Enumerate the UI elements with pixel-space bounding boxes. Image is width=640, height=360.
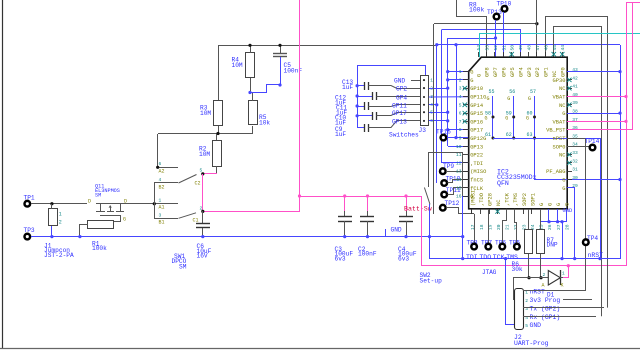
- svg-text:VBAT: VBAT: [553, 119, 567, 125]
- svg-text:47: 47: [535, 45, 541, 51]
- svg-text:J3: J3: [419, 127, 427, 134]
- svg-text:G: G: [547, 203, 553, 206]
- svg-text:,TMS: ,TMS: [513, 193, 519, 206]
- wire TP1 to Q11 gate: [31, 203, 87, 205]
- capacitor C13: [357, 85, 364, 87]
- svg-text:TDI: TDI: [466, 254, 478, 261]
- wire Tx GP2 top loop: [546, 17, 608, 308]
- svg-text:29: 29: [572, 183, 578, 189]
- svg-text:fnCS: fnCS: [470, 178, 483, 184]
- svg-text:GP0: GP0: [561, 67, 567, 77]
- svg-text:GP2: GP2: [535, 67, 541, 77]
- svg-text:10M: 10M: [199, 151, 210, 158]
- svg-text:UART-Prog: UART-Prog: [514, 340, 549, 347]
- capacitor C3: [344, 196, 346, 211]
- wire chip G pin1: [448, 71, 468, 73]
- wire VBAT pin40: [567, 96, 626, 98]
- switch SW2 Set-up: [428, 152, 430, 187]
- svg-text:4: 4: [159, 177, 162, 183]
- svg-text:57: 57: [530, 89, 536, 95]
- svg-text:GP3: GP3: [527, 67, 533, 77]
- svg-text:,TCK: ,TCK: [505, 192, 511, 206]
- svg-text:G: G: [123, 217, 126, 223]
- svg-text:28: 28: [564, 224, 570, 230]
- wire GND rail lower: [430, 258, 620, 260]
- svg-text:1: 1: [159, 198, 162, 204]
- svg-text:NC: NC: [496, 200, 502, 206]
- svg-text:G: G: [556, 203, 562, 206]
- svg-text:1: 1: [562, 271, 565, 277]
- svg-text:3: 3: [430, 95, 433, 100]
- wire bottom G pins bus: [540, 221, 566, 223]
- wire GND vertical right: [620, 45, 622, 259]
- svg-text:(MOSI: (MOSI: [470, 190, 476, 206]
- svg-text:3: 3: [459, 86, 462, 92]
- ground GND net stub: [385, 229, 387, 237]
- test point TP6: [503, 209, 507, 243]
- wire GP2 net: [429, 88, 448, 90]
- svg-text:Batt-Sw: Batt-Sw: [404, 205, 432, 212]
- resistor R4: [246, 53, 255, 78]
- wire VB_PST pin36: [567, 129, 633, 131]
- wire G pin38 to GND: [567, 113, 620, 115]
- test point TP8: [474, 214, 476, 243]
- svg-text:JST-2-PA: JST-2-PA: [44, 252, 74, 259]
- svg-text:C2: C2: [195, 180, 201, 186]
- svg-text:GP11G: GP11G: [470, 95, 486, 101]
- capacitor C4: [406, 196, 408, 211]
- svg-text:16: 16: [456, 194, 462, 200]
- svg-text:6v3: 6v3: [398, 255, 409, 262]
- svg-text:1: 1: [430, 78, 433, 83]
- chip right pins: [567, 187, 572, 189]
- svg-text:62: 62: [506, 132, 512, 138]
- svg-text:VB_PST: VB_PST: [546, 128, 566, 134]
- svg-text:TP3: TP3: [24, 227, 35, 234]
- wire GP17 net: [429, 112, 448, 114]
- svg-text:21: 21: [504, 224, 510, 230]
- svg-text:1uF: 1uF: [335, 131, 346, 138]
- svg-text:55: 55: [489, 89, 495, 95]
- svg-text:2: 2: [59, 220, 62, 226]
- svg-text:4: 4: [430, 103, 433, 108]
- svg-text:Tx (GP2): Tx (GP2): [530, 305, 561, 312]
- resistor R2: [213, 141, 222, 167]
- wire GND to J2 pin5: [506, 259, 515, 325]
- svg-text:1: 1: [59, 212, 62, 218]
- svg-text:Set-up: Set-up: [420, 277, 443, 284]
- svg-text:13: 13: [456, 169, 462, 175]
- test point TP1: [25, 201, 31, 207]
- svg-text:GP4: GP4: [396, 94, 407, 101]
- svg-text:GP17: GP17: [392, 110, 407, 117]
- svg-text:GP1: GP1: [544, 67, 550, 77]
- svg-text:46: 46: [543, 45, 549, 51]
- svg-text:30k: 30k: [512, 266, 523, 273]
- svg-text:B2: B2: [159, 185, 165, 191]
- svg-text:6: 6: [459, 111, 462, 117]
- svg-text:NC: NC: [559, 86, 565, 92]
- wire cyan net: [480, 34, 640, 58]
- svg-text:JTAG: JTAG: [482, 269, 497, 276]
- svg-text:17: 17: [470, 224, 476, 230]
- svg-text:G: G: [470, 78, 473, 84]
- svg-text:A1: A1: [159, 205, 165, 211]
- svg-text:G: G: [565, 203, 571, 206]
- svg-text:nRST: nRST: [588, 252, 604, 259]
- svg-text:SOP0: SOP0: [553, 144, 566, 150]
- svg-text:,TDI: ,TDI: [470, 161, 483, 167]
- svg-text:GP15: GP15: [470, 111, 483, 117]
- svg-text:43: 43: [572, 67, 578, 73]
- wire VBAT vertical right: [626, 2, 628, 266]
- svg-text:27: 27: [556, 224, 562, 230]
- IC U-IC2 chip body: [469, 57, 568, 209]
- svg-text:Rx (GP1): Rx (GP1): [530, 314, 561, 321]
- svg-text:GP13: GP13: [470, 144, 483, 150]
- svg-text:VBAT: VBAT: [553, 95, 567, 101]
- svg-text:50: 50: [510, 45, 516, 51]
- wire blue bus left of chip: [447, 38, 449, 146]
- wire 3v3Prog to J2 pin2: [514, 278, 517, 300]
- svg-text:nRST: nRST: [530, 289, 546, 296]
- svg-text:1uF: 1uF: [342, 84, 353, 91]
- svg-text:2: 2: [459, 77, 462, 83]
- resistor R1: [88, 221, 114, 229]
- wire G pin29 to GND: [567, 188, 574, 259]
- svg-text:42: 42: [572, 75, 578, 81]
- svg-text:GP13: GP13: [392, 119, 407, 126]
- svg-text:63: 63: [527, 132, 533, 138]
- svg-text:TMS: TMS: [506, 254, 518, 261]
- svg-text:1: 1: [459, 69, 462, 75]
- wire GND rail: [31, 236, 463, 238]
- switch SW1 DPCO: [158, 167, 178, 169]
- svg-text:30: 30: [572, 175, 578, 181]
- svg-text:49: 49: [518, 45, 524, 51]
- test point TP3: [25, 234, 31, 240]
- svg-text:GND: GND: [394, 78, 405, 85]
- svg-text:TCK: TCK: [493, 254, 505, 261]
- svg-text:G: G: [485, 115, 488, 121]
- test point TP14: [567, 146, 590, 148]
- svg-text:G: G: [539, 203, 545, 206]
- svg-text:10: 10: [456, 144, 462, 150]
- wire Rx GP1 top loop: [554, 27, 602, 317]
- wire top pin47 to top edge: [536, 0, 538, 57]
- transistor Q11 dual MOSFET: [96, 203, 154, 205]
- svg-text:44: 44: [560, 45, 566, 51]
- svg-text:GP7: GP7: [493, 67, 499, 77]
- capacitor C9: [357, 127, 364, 129]
- capacitor C12: [357, 96, 372, 98]
- svg-text:5: 5: [459, 102, 462, 108]
- svg-text:QFN: QFN: [497, 180, 509, 187]
- svg-text:GP17: GP17: [470, 128, 483, 134]
- svg-text:48: 48: [527, 45, 533, 51]
- capacitor C10: [357, 115, 372, 117]
- svg-text:6v3: 6v3: [335, 255, 346, 262]
- svg-text:39: 39: [572, 100, 578, 106]
- wire VBAT top right: [626, 2, 640, 4]
- wire chip G pin16 to GND: [463, 196, 468, 198]
- wire blue horiz y29: [441, 30, 520, 58]
- svg-text:SM: SM: [95, 193, 101, 199]
- svg-text:PF_ABG: PF_ABG: [546, 169, 565, 175]
- svg-text:SM: SM: [179, 263, 187, 270]
- svg-text:G: G: [562, 111, 565, 117]
- svg-text:10k: 10k: [259, 120, 270, 127]
- svg-text:GP2: GP2: [396, 86, 407, 93]
- wire VBAT pin37: [567, 121, 626, 123]
- svg-text:GP5: GP5: [510, 67, 516, 77]
- svg-text:10M: 10M: [232, 62, 243, 69]
- svg-text:100k: 100k: [92, 245, 107, 252]
- capacitor C11: [357, 106, 364, 108]
- svg-text:6: 6: [430, 119, 433, 124]
- test point TP7: [488, 209, 490, 243]
- svg-text:2: 2: [525, 298, 528, 304]
- svg-text:26: 26: [547, 224, 553, 230]
- wire J2 pin1 nRST: [523, 290, 586, 292]
- svg-text:18: 18: [479, 224, 485, 230]
- svg-text:5: 5: [525, 323, 528, 329]
- resistor R3: [214, 101, 223, 126]
- svg-text:G: G: [470, 70, 473, 76]
- wire blue stub J3 side: [436, 45, 438, 183]
- svg-text:GP6: GP6: [502, 67, 508, 77]
- svg-text:GP4: GP4: [518, 67, 524, 77]
- svg-text:33: 33: [572, 150, 578, 156]
- svg-text:20: 20: [496, 224, 502, 230]
- svg-text:3: 3: [159, 212, 162, 218]
- connector J3 Switches: [421, 76, 429, 126]
- capacitor C5: [273, 53, 287, 55]
- svg-text:45: 45: [552, 45, 558, 51]
- svg-text:54: 54: [476, 45, 482, 51]
- svg-text:TP1: TP1: [24, 194, 35, 201]
- svg-text:NC: NC: [559, 103, 565, 109]
- wire pink 3v3 rail bottom: [421, 265, 626, 267]
- svg-text:G: G: [476, 74, 482, 77]
- svg-text:GP14: GP14: [470, 103, 483, 109]
- wire 3v3Prog right segment: [563, 299, 592, 301]
- wire V+ top rail: [218, 45, 437, 47]
- wire R2 R3 R5 node: [158, 133, 253, 135]
- wire pink Batt-Sw down to SW2 rail: [421, 196, 423, 266]
- svg-text:K: K: [561, 283, 564, 289]
- svg-text:SOP2: SOP2: [522, 193, 528, 206]
- svg-text:NC: NC: [552, 71, 558, 77]
- wire G pin43 to GND: [567, 71, 620, 73]
- svg-text:4: 4: [459, 94, 462, 100]
- svg-text:G: G: [526, 115, 529, 121]
- svg-text:DNP: DNP: [547, 242, 558, 249]
- wire nPST pin35 to TP4/J2: [567, 139, 585, 291]
- wire Batt-Sw pink net from SW1: [203, 173, 217, 175]
- svg-text:GP11: GP11: [392, 102, 407, 109]
- svg-text:6: 6: [159, 161, 162, 167]
- svg-text:4: 4: [525, 315, 528, 321]
- resistor R6: [528, 209, 530, 230]
- svg-text:GP28: GP28: [488, 193, 494, 206]
- svg-text:(MISO: (MISO: [470, 169, 486, 175]
- chip internal G pads: [492, 96, 494, 138]
- wire GP4 net: [429, 96, 468, 98]
- svg-text:11: 11: [456, 152, 462, 158]
- connector J1: [49, 209, 58, 226]
- test point TP5: [515, 209, 517, 243]
- svg-text:G: G: [487, 96, 490, 102]
- svg-text:31: 31: [572, 167, 578, 173]
- wire blue horiz y38: [448, 38, 496, 40]
- svg-text:A2: A2: [159, 169, 165, 175]
- wire blue bus B to TDI pin: [441, 30, 443, 163]
- svg-text:GP8: GP8: [485, 67, 491, 77]
- svg-text:,TDO: ,TDO: [479, 193, 485, 206]
- wire pink vertical from top edge: [299, 0, 301, 196]
- svg-text:SOP1: SOP1: [530, 193, 536, 206]
- svg-text:14: 14: [456, 177, 462, 183]
- wire GND bus of cap stack: [358, 66, 426, 86]
- svg-text:GP30: GP30: [553, 78, 566, 84]
- svg-text:15: 15: [456, 185, 462, 191]
- svg-text:B1: B1: [159, 220, 165, 226]
- wire chip G pin2: [448, 79, 468, 81]
- svg-text:52: 52: [493, 45, 499, 51]
- wire GP13 net: [429, 120, 448, 122]
- svg-text:9: 9: [459, 136, 462, 142]
- svg-text:Switches: Switches: [389, 132, 419, 139]
- svg-text:16V: 16V: [197, 253, 208, 260]
- svg-text:53: 53: [484, 45, 490, 51]
- wire J2 pin3 Tx: [523, 307, 604, 309]
- svg-text:GP10: GP10: [470, 86, 483, 92]
- svg-text:GND: GND: [530, 322, 542, 329]
- svg-text:TP12: TP12: [445, 200, 460, 207]
- svg-text:G: G: [505, 115, 508, 121]
- svg-text:56: 56: [509, 89, 515, 95]
- svg-text:A: A: [542, 283, 545, 289]
- svg-text:G: G: [528, 96, 531, 102]
- connector J2 UART-Prog: [515, 289, 524, 330]
- chip top pins: [562, 52, 564, 57]
- wire main blue top rail: [437, 44, 620, 46]
- svg-text:7: 7: [459, 119, 462, 125]
- svg-text:3v3 Prog: 3v3 Prog: [530, 297, 561, 304]
- svg-text:D: D: [124, 199, 127, 205]
- svg-text:51: 51: [501, 45, 507, 51]
- wire internal GND down right side: [600, 138, 602, 259]
- wire J2 pin4 Rx: [523, 316, 596, 318]
- svg-text:8: 8: [459, 127, 462, 133]
- svg-text:32: 32: [572, 158, 578, 164]
- chip left pins: [463, 71, 469, 73]
- svg-text:GP22: GP22: [470, 153, 483, 159]
- svg-text:GND: GND: [563, 208, 573, 214]
- svg-text:100k: 100k: [469, 6, 485, 13]
- svg-text:G: G: [562, 186, 565, 192]
- svg-text:GP16: GP16: [470, 119, 483, 125]
- wire chip GP17 pin8: [448, 129, 468, 131]
- wire internal GND to right: [493, 138, 600, 140]
- svg-text:41: 41: [572, 84, 578, 90]
- svg-text:GP12G: GP12G: [470, 136, 486, 142]
- chip bottom pins: [471, 209, 473, 214]
- svg-text:GND: GND: [391, 227, 402, 234]
- wire D1 cathode to 3v3 rail: [563, 277, 568, 279]
- svg-text:G: G: [562, 178, 565, 184]
- svg-text:NC: NC: [559, 153, 565, 159]
- wire gray SW2 to GP2 top pin: [433, 24, 435, 214]
- svg-text:D: D: [88, 199, 91, 205]
- wire blue to GP12G: [456, 45, 458, 138]
- svg-text:2: 2: [543, 272, 546, 278]
- wire GP11 net: [429, 104, 437, 106]
- resistor R7 DNP: [540, 209, 542, 230]
- svg-text:G: G: [507, 96, 510, 102]
- capacitor C2: [367, 196, 369, 211]
- svg-text:TDO: TDO: [479, 254, 491, 261]
- resistor R5: [249, 101, 258, 125]
- svg-text:10M: 10M: [200, 110, 211, 117]
- capacitor C6: [202, 211, 204, 223]
- svg-text:nPST: nPST: [553, 136, 567, 142]
- svg-text:100nF: 100nF: [358, 251, 377, 258]
- svg-text:12: 12: [456, 160, 462, 166]
- diode D1: [513, 277, 548, 279]
- svg-text:36: 36: [572, 125, 578, 131]
